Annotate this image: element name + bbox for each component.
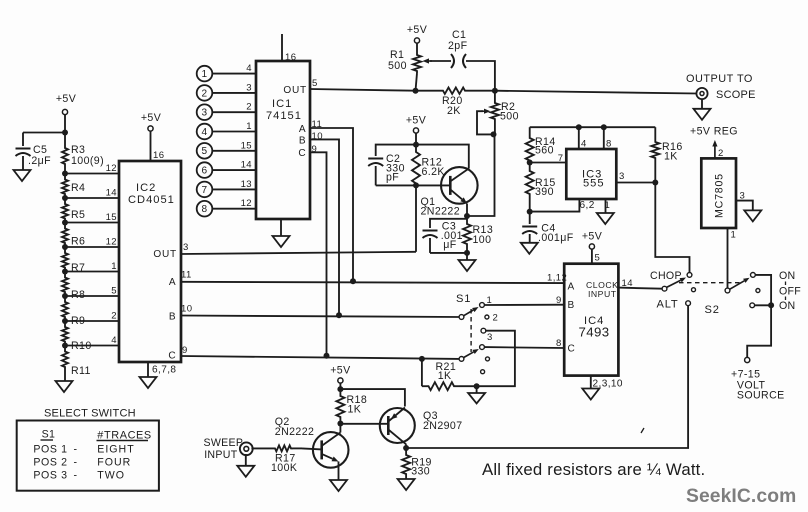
wire IC1 A down to A net	[310, 128, 353, 281]
node S2 OFF contact	[756, 289, 760, 293]
svg-text:C: C	[168, 351, 176, 362]
wire Q1 base node down to IC2 OUT net	[415, 185, 417, 251]
ground (C5)	[14, 170, 31, 181]
node S1 pole2 contact	[480, 345, 485, 350]
wire S1 pole2 contact to IC4 pin 8	[484, 346, 564, 349]
node ladder tap 8	[62, 343, 68, 349]
wire R17 to Q2 base	[302, 448, 322, 449]
svg-text:4: 4	[202, 127, 208, 138]
svg-text:EIGHT: EIGHT	[97, 444, 134, 456]
resistor R9	[62, 300, 68, 319]
svg-text:8: 8	[202, 204, 208, 215]
svg-text:2K: 2K	[447, 105, 461, 117]
wire MC7805 pin 1 to S2	[727, 228, 729, 288]
svg-text:10: 10	[181, 304, 192, 315]
resistor R20 2K	[416, 90, 442, 92]
node input 7 terminal	[197, 182, 213, 198]
wire emitter node to C3	[430, 219, 467, 228]
svg-text:A: A	[169, 277, 176, 288]
svg-text:#TRACES: #TRACES	[97, 430, 152, 442]
switch S1 pole1 lever	[464, 310, 474, 316]
wire IC1 B down to B net	[310, 139, 339, 315]
svg-text:μF: μF	[443, 239, 457, 251]
ground (R11)	[56, 381, 73, 392]
wire IC1 C down to C net	[310, 152, 327, 355]
gang mark ON-OFF	[785, 282, 787, 286]
op-amp IC2 CD4051 box	[119, 161, 181, 362]
wire tap to IC2 pin 14	[65, 197, 119, 199]
svg-text:12: 12	[241, 198, 252, 209]
wire R1 bottom to out node	[416, 73, 418, 91]
svg-text:2: 2	[246, 102, 252, 113]
resistor R1 500 potentiometer	[413, 53, 421, 73]
transistor Q3 2N2907	[380, 408, 415, 443]
svg-text:1: 1	[605, 200, 611, 211]
node +5V junction	[337, 386, 343, 392]
resistor R4	[62, 178, 68, 197]
capacitor C1 2pF	[451, 54, 454, 68]
wire to C5	[23, 132, 65, 134]
gang dashed link S2	[679, 282, 740, 284]
ground (C4)	[521, 243, 538, 254]
resistor R7	[62, 251, 68, 270]
ground (Q1 stage)	[459, 260, 476, 271]
node R20 left junction	[413, 88, 419, 94]
wire to scope connector	[495, 91, 697, 94]
resistor R5	[62, 202, 68, 221]
svg-text:S1: S1	[42, 429, 56, 441]
svg-text:S1: S1	[456, 293, 471, 305]
ground (R19)	[398, 479, 415, 490]
resistor R16 1K	[654, 127, 656, 140]
svg-text:All fixed resistors are ¼ Watt: All fixed resistors are ¼ Watt.	[482, 460, 705, 479]
svg-text:+5V: +5V	[406, 115, 427, 127]
resistor R13 100	[466, 216, 468, 222]
wire scope connector ground stub	[701, 99, 703, 109]
resistor R15 390	[529, 163, 531, 170]
gang dashed link S1	[470, 309, 472, 352]
node input 3 terminal	[197, 104, 213, 120]
svg-text:15: 15	[106, 212, 117, 223]
wire IC3 pin 4	[578, 127, 580, 149]
wire IC3 pin 8	[603, 127, 605, 149]
wire R21 junction to ground	[476, 386, 478, 393]
svg-text:SOURCE: SOURCE	[737, 390, 785, 402]
ground (scope)	[694, 109, 711, 120]
node Q1 emitter junction	[464, 213, 470, 219]
wire to ground (Q1)	[466, 253, 468, 260]
svg-text:A: A	[299, 124, 306, 135]
svg-text:ON: ON	[779, 300, 796, 312]
svg-text:330: 330	[411, 466, 430, 478]
node R2 bottom junction	[491, 131, 497, 137]
svg-text:7: 7	[558, 153, 564, 164]
svg-text:500: 500	[388, 60, 407, 72]
svg-text:CHOP: CHOP	[650, 270, 682, 282]
switch S2 pole2 lever	[730, 281, 745, 289]
wire C1 to scope node	[466, 61, 495, 91]
svg-text:100: 100	[473, 234, 492, 246]
node ALT contact	[686, 301, 691, 306]
svg-text:ALT: ALT	[657, 299, 679, 311]
svg-text:100K: 100K	[271, 462, 297, 474]
node R14/R15 junction	[527, 160, 533, 166]
switch S2 pole1 lever	[667, 280, 681, 287]
svg-text:CD4051: CD4051	[128, 194, 175, 206]
node ladder top junction	[62, 130, 68, 136]
svg-text:3: 3	[246, 82, 252, 93]
node R20 right junction	[492, 88, 498, 94]
svg-text:16: 16	[153, 150, 164, 161]
svg-text:OUT: OUT	[153, 249, 177, 260]
node pin3/R16 junction	[652, 180, 658, 186]
svg-text:5: 5	[202, 146, 208, 157]
resistor R21 1K	[422, 385, 427, 387]
transistor Q1 2N2222	[441, 167, 478, 204]
svg-text:+5V: +5V	[407, 24, 428, 36]
svg-text:4: 4	[111, 335, 117, 346]
wire IC3 pin 1 ground stub	[605, 199, 607, 213]
resistor R18 1K	[339, 389, 341, 394]
svg-text:1: 1	[111, 261, 117, 272]
ground (IC1)	[273, 236, 290, 247]
wire input 6 to IC1 pin 14	[212, 169, 256, 171]
svg-text:INPUT: INPUT	[204, 449, 238, 461]
wire IC2 OUT to Q1 base net	[181, 252, 416, 254]
svg-text:1: 1	[202, 69, 208, 80]
ground (IC4)	[582, 389, 599, 400]
wire +5V to IC2 pin 16	[150, 131, 152, 161]
node input 8 terminal	[197, 201, 213, 217]
svg-text:3: 3	[619, 171, 625, 182]
svg-text:POS 1: POS 1	[33, 444, 67, 456]
node ladder tap 4	[62, 244, 68, 250]
wire IC4 pin 14 to S2	[618, 288, 662, 289]
wire artifact mark	[641, 428, 644, 433]
svg-text:6,2: 6,2	[580, 200, 595, 211]
wire R21 to junction	[459, 385, 477, 387]
svg-text:9: 9	[312, 144, 318, 155]
wire +5V to Q3 emitter	[340, 389, 405, 406]
wire R11 to ground	[64, 371, 66, 381]
svg-text:R5: R5	[71, 209, 85, 221]
svg-text:3: 3	[740, 191, 746, 202]
svg-text:1K: 1K	[348, 404, 362, 416]
transistor Q2 2N2222	[313, 432, 349, 468]
svg-text:R4: R4	[71, 182, 85, 194]
resistor R14 560	[526, 136, 534, 163]
node pin4 rail junction	[576, 124, 582, 130]
wire input 5 to IC1 pin 15	[212, 150, 256, 152]
wire IC1 pin 16 stub	[281, 34, 283, 61]
resistor R12 6.2K	[415, 145, 417, 150]
svg-text:2pF: 2pF	[448, 40, 468, 52]
svg-text:5: 5	[595, 253, 601, 264]
wire Q2 emitter to ground	[338, 462, 340, 481]
svg-text:10: 10	[312, 131, 323, 142]
op-amp IC1 74151 box	[256, 61, 310, 219]
node S1 contact 1	[480, 303, 485, 308]
gang mark OFF-ON	[785, 297, 787, 301]
svg-text:14: 14	[106, 188, 118, 199]
wire tap to IC2 pin 5	[65, 295, 119, 297]
svg-text:2: 2	[202, 88, 208, 99]
svg-text:1: 1	[731, 230, 737, 241]
node input 4 terminal	[197, 124, 213, 140]
svg-text:pF: pF	[386, 172, 399, 184]
node S2 pole2 pivot	[725, 288, 730, 293]
resistor R8	[62, 276, 68, 295]
wire to C2	[376, 145, 416, 156]
node ladder tap 1	[62, 171, 68, 177]
regulator U1 MC7805 box	[701, 158, 736, 228]
node S1 contact 2	[485, 315, 489, 319]
node ladder tap 6	[62, 293, 68, 299]
wire S1 contact1 to IC4 pin 9	[484, 304, 564, 306]
svg-text:555: 555	[583, 178, 605, 190]
wire input 7 to IC1 pin 13	[212, 188, 256, 190]
svg-text:2: 2	[111, 311, 117, 322]
wire tap to IC2 pin 4	[65, 345, 119, 347]
node pin8 rail junction	[601, 124, 607, 130]
svg-text:+5V REG: +5V REG	[690, 126, 738, 138]
wire ON bottom to junction	[755, 304, 772, 306]
svg-text:1,12: 1,12	[547, 273, 567, 284]
capacitor C2 330pF	[368, 158, 383, 160]
wire tap to IC2 pin 2	[65, 320, 119, 322]
wire sweep connector ground stub	[245, 454, 247, 466]
wire C3 bottom to R13 bottom	[430, 252, 467, 254]
wire MC7805 pin 2 output arrow	[714, 147, 716, 159]
wire C2 bottom to base node	[376, 184, 416, 186]
node S1 open contact 4	[486, 357, 490, 361]
svg-text:ON: ON	[779, 270, 796, 282]
ground (IC3)	[597, 213, 614, 224]
wire C net to R21	[421, 359, 423, 386]
svg-text:13: 13	[241, 179, 252, 190]
node input 2 terminal	[197, 85, 213, 101]
svg-text:9: 9	[182, 345, 188, 356]
wire S2 ON contacts to source	[747, 275, 771, 358]
wire S1 contact3 to R21 node	[477, 331, 515, 387]
svg-text:-: -	[74, 444, 78, 456]
node input 1 terminal	[197, 66, 213, 82]
wire +5V to R1	[416, 43, 418, 53]
ground (IC2)	[140, 377, 157, 388]
wire IC1 OUT to R20 node	[310, 89, 416, 91]
svg-text:1: 1	[246, 121, 252, 132]
svg-text:2N2222: 2N2222	[421, 206, 461, 218]
svg-text:-: -	[74, 470, 78, 482]
capacitor C3 .001uF	[423, 230, 438, 232]
svg-text:+5V: +5V	[56, 93, 77, 105]
wire ALT contact to Q3 collector net	[406, 306, 688, 448]
svg-text:C: C	[568, 344, 576, 355]
svg-text:7493: 7493	[579, 325, 610, 340]
svg-text:INPUT: INPUT	[588, 289, 617, 299]
node R13 bottom junction	[464, 250, 470, 256]
wire R2 bottom lead	[494, 121, 496, 134]
node C net junction	[324, 353, 330, 359]
svg-text:C: C	[298, 148, 306, 159]
node S1 pole1 pivot	[459, 315, 464, 320]
wire R1 wiper to C1	[430, 60, 451, 62]
wire R2 node down to Q1 emitter node	[467, 134, 495, 216]
resistor R6	[62, 227, 68, 246]
svg-text:4: 4	[581, 139, 587, 150]
capacitor C5 .2uF	[16, 148, 31, 150]
wire +5V to Q1 collector node	[415, 133, 417, 145]
wire pin7	[530, 162, 567, 164]
svg-text:11: 11	[181, 270, 192, 281]
wire IC2 B to S1 pole 1	[181, 316, 459, 318]
wire IC2 A to IC4	[181, 282, 564, 283]
node ladder tap 7	[62, 318, 68, 324]
svg-text:4: 4	[246, 63, 252, 74]
wire tap to IC2 pin 1	[65, 271, 119, 273]
svg-text:B: B	[169, 312, 176, 323]
svg-text:IC2: IC2	[136, 182, 156, 194]
wire input 2 to IC1 pin 3	[212, 92, 256, 94]
resistor R3 100(9)	[64, 134, 66, 146]
svg-text:3: 3	[183, 242, 189, 253]
wire Q2 collector up	[339, 424, 341, 433]
svg-text:5: 5	[111, 286, 117, 297]
node S2 pole1 pivot	[662, 286, 667, 291]
wire Q1 emitter down	[466, 204, 468, 217]
resistor R11	[62, 350, 68, 370]
wire pin3 node to CHOP contact	[655, 183, 689, 273]
svg-text:5: 5	[312, 78, 318, 89]
node ladder tap 2	[62, 195, 68, 201]
wire pin 6,2	[530, 199, 580, 212]
svg-text:3: 3	[202, 108, 208, 119]
node S1 open contact 5	[481, 370, 485, 374]
node CHOP contact	[687, 273, 692, 278]
wire rail left down to R14	[529, 127, 531, 136]
svg-text:7: 7	[202, 185, 208, 196]
node input 5 terminal	[197, 143, 213, 159]
resistor R10	[62, 325, 68, 344]
wire IC2 C to S1 pole 2	[181, 356, 459, 359]
svg-text:15: 15	[241, 140, 252, 151]
svg-text:74151: 74151	[266, 110, 302, 122]
svg-text:+5V: +5V	[582, 231, 603, 243]
svg-text:SeekIC.com: SeekIC.com	[686, 486, 796, 507]
svg-text:100(9): 100(9)	[71, 155, 104, 167]
wire Q3 collector down	[405, 444, 407, 448]
svg-text:OUT: OUT	[283, 85, 307, 96]
node S2 pole1 middle contact	[692, 288, 696, 292]
svg-text:14: 14	[241, 160, 253, 171]
node ladder tap 5	[62, 269, 68, 275]
node +7-15 V source terminal	[745, 357, 750, 362]
svg-text:B: B	[299, 136, 306, 147]
wire MC7805 pin 3 to ground	[736, 201, 753, 211]
wire tap to IC2 pin 12	[65, 246, 119, 248]
wire input 3 to IC1 pin 2	[212, 111, 256, 113]
op-amp IC4 7493 box	[564, 264, 618, 376]
wire +5V to IC4 pin 5	[591, 249, 593, 264]
wire IC1 ground stub	[280, 219, 282, 236]
node Q1 base junction	[413, 182, 419, 188]
wire tap to IC2 pin 12	[65, 173, 119, 175]
svg-text:R11: R11	[71, 365, 91, 377]
node Q3 collector junction	[403, 445, 409, 451]
node ladder tap 3	[62, 220, 68, 226]
svg-text:POS 3: POS 3	[33, 470, 67, 482]
node S2 ON bottom contact	[750, 303, 755, 308]
svg-text:+5V: +5V	[141, 112, 162, 124]
capacitor C4 .001uF	[529, 212, 531, 224]
node B net junction	[336, 312, 342, 318]
svg-text:2: 2	[493, 313, 499, 324]
svg-text:OUTPUT TO: OUTPUT TO	[686, 73, 753, 85]
wire 555 top rail	[530, 126, 656, 128]
node R21 right junction	[474, 383, 480, 389]
svg-text:8: 8	[606, 139, 612, 150]
node OUTPUT TO SCOPE connector	[696, 88, 707, 99]
svg-text:.001μF: .001μF	[538, 232, 574, 244]
svg-text:1K: 1K	[664, 151, 678, 163]
svg-text:14: 14	[622, 278, 634, 289]
svg-text:IC1: IC1	[272, 98, 292, 110]
wire +5V down	[339, 383, 341, 389]
svg-text:.2μF: .2μF	[28, 155, 51, 167]
svg-text:12: 12	[106, 237, 117, 248]
wire tap to IC2 pin 15	[65, 222, 119, 224]
wire input 4 to IC1 pin 1	[212, 131, 256, 133]
node S2 source junction	[768, 302, 774, 308]
svg-text:2N2222: 2N2222	[275, 426, 315, 438]
wire input 1 to IC1 pin 4	[212, 73, 256, 75]
svg-text:6,7,8: 6,7,8	[152, 365, 176, 376]
resistor R17 100K	[251, 447, 273, 449]
svg-text:POS 2: POS 2	[33, 457, 67, 469]
node S1 pole2 pivot	[459, 357, 464, 362]
svg-text:MC7805: MC7805	[714, 173, 726, 218]
node A net junction	[350, 278, 356, 284]
table select switch box	[17, 421, 159, 491]
svg-text:SWEEP: SWEEP	[204, 437, 244, 449]
svg-text:500: 500	[500, 111, 519, 123]
svg-text:1K: 1K	[438, 370, 452, 382]
wire base node to Q1	[416, 184, 450, 186]
wire +5V to ladder	[64, 115, 66, 133]
wire input 8 to IC1 pin 12	[212, 208, 256, 210]
svg-text:S2: S2	[705, 304, 720, 316]
ground (Q2)	[330, 480, 347, 491]
svg-text:TWO: TWO	[97, 470, 125, 482]
ground (sweep)	[237, 466, 254, 477]
svg-text:+5V: +5V	[330, 365, 351, 377]
node S1 contact 3	[481, 328, 486, 333]
node input 6 terminal	[197, 162, 213, 178]
svg-text:R8: R8	[71, 289, 85, 301]
node SWEEP INPUT connector	[240, 442, 253, 455]
svg-text:SELECT SWITCH: SELECT SWITCH	[44, 408, 136, 420]
node Q2 collector junction	[337, 421, 343, 427]
svg-text:FOUR: FOUR	[97, 457, 131, 469]
node Q1 top junction	[413, 142, 419, 148]
node R15/C4 junction	[527, 209, 533, 215]
svg-text:3: 3	[487, 332, 493, 343]
svg-text:A: A	[568, 282, 575, 293]
svg-text:OFF: OFF	[779, 286, 801, 298]
node S2 ON top contact	[751, 273, 756, 278]
ground (MC7805)	[744, 210, 761, 221]
wire Q1 collector to +5V line	[416, 145, 469, 169]
